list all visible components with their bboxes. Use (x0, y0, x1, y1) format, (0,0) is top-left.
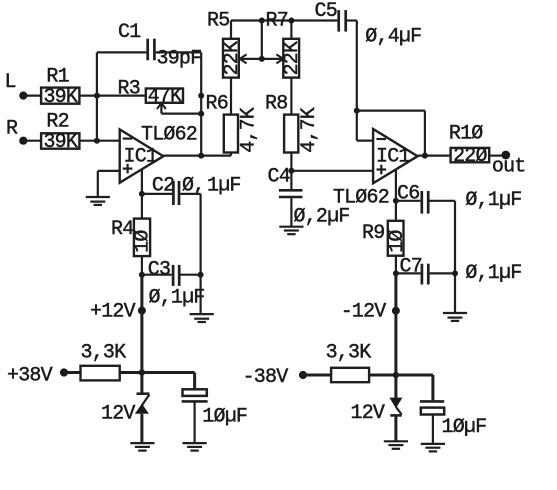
wire R9 bottom (395, 256, 397, 274)
svg-text:1ØµF: 1ØµF (442, 416, 487, 439)
junction dot R1/R3 node (94, 93, 100, 99)
svg-text:C5: C5 (315, 0, 337, 23)
junction dot C4 node (288, 168, 294, 174)
resistor R10 (451, 145, 490, 168)
capacitor C2 (173, 181, 179, 205)
wire 3,3K to rail (120, 371, 142, 374)
op-amp IC1 right minus sign (376, 138, 386, 140)
svg-text:+38V: +38V (7, 365, 53, 388)
resistor R4 (132, 219, 155, 257)
wire 3,3K right to rail (369, 374, 396, 377)
wire IC1 right minus input (357, 140, 373, 142)
R7 wiper arrowhead (276, 54, 283, 63)
wire C2/C3 ground vertical (200, 194, 202, 275)
svg-text:R9: R9 (362, 222, 384, 245)
wire R1 to R3 (79, 94, 145, 96)
svg-text:R8: R8 (265, 93, 287, 116)
wire op-amp output row (163, 155, 231, 157)
svg-text:Ø,1µF: Ø,1µF (149, 286, 205, 309)
svg-text:4,7K: 4,7K (298, 107, 321, 153)
capacitor C4 (279, 171, 303, 227)
svg-text:L: L (5, 71, 16, 94)
svg-text:22K: 22K (281, 41, 304, 75)
junction dot C7 node (393, 270, 399, 276)
svg-text:R: R (6, 118, 18, 141)
ground C6C7 (443, 313, 467, 321)
capacitor C1 (148, 39, 155, 61)
wire C3 left (142, 274, 172, 276)
resistor R1 (41, 86, 79, 109)
junction dot +38V node (139, 369, 145, 375)
wire C5 right (347, 19, 357, 21)
trimmer R7 (281, 39, 304, 78)
wire feedback horizontal right (357, 109, 425, 111)
wire op-amp V- pin down (141, 170, 143, 220)
zener diode left 12V (135, 394, 150, 443)
node out terminal dot (501, 151, 510, 160)
svg-text:R3: R3 (118, 78, 140, 101)
wire to filter cap right (396, 374, 433, 377)
node +38V terminal dot (60, 368, 68, 376)
ground under left 10uF (183, 443, 207, 451)
wire wiper row (240, 58, 284, 60)
trimmer R5 (221, 39, 244, 78)
op-amp IC1 left plus sign (123, 164, 133, 174)
svg-text:R4: R4 (111, 218, 133, 241)
wire R4 bottom (141, 256, 143, 275)
wire -38V to resistor (303, 374, 331, 377)
resistor R9 (386, 221, 409, 256)
capacitor 10uF right (420, 375, 444, 444)
svg-text:22Ø: 22Ø (453, 145, 487, 168)
svg-text:TLØ62: TLØ62 (141, 124, 197, 147)
junction dot C2 node (139, 191, 145, 197)
wire +12V rail (140, 275, 143, 393)
resistor 3,3K right (331, 368, 369, 382)
wire C1 right (156, 51, 202, 53)
wire C6C7 ground vertical (454, 201, 456, 313)
junction dot wiper (198, 111, 204, 117)
wire +38V to resistor (64, 371, 81, 374)
op-amp U1B IC1 right (373, 129, 418, 183)
wire R8 bottom to C4 (290, 153, 292, 171)
wire IC1 right V- pin down (395, 170, 397, 221)
wire R3 wiper to feedback (161, 112, 201, 114)
wire C6 left (396, 200, 421, 202)
svg-text:4,7K: 4,7K (238, 107, 261, 153)
wire R10 to out (489, 155, 501, 157)
ground under left zener (130, 443, 154, 451)
op-amp IC1 left minus sign (123, 138, 133, 140)
junction dot wiper row (259, 56, 265, 62)
svg-text:C4: C4 (268, 166, 290, 189)
resistor R2 (41, 131, 79, 154)
svg-text:1ØµF: 1ØµF (202, 406, 247, 429)
junction dot R3 right (198, 93, 204, 99)
wire summing node vertical (96, 52, 98, 140)
wire R7 top leg (290, 21, 292, 39)
junction dot C3 node (139, 272, 145, 278)
svg-text:39K: 39K (43, 86, 77, 109)
svg-text:3,3K: 3,3K (81, 342, 127, 365)
capacitor C3 (173, 265, 179, 286)
capacitor C2 value (182, 175, 241, 198)
junction dot wiper feed top (259, 18, 265, 24)
wire op-amp plus input (98, 170, 120, 172)
ground C2C3 (190, 314, 214, 322)
ground under right 10uF (421, 444, 445, 452)
wire top feedback row (231, 19, 337, 21)
wire C7 left (396, 272, 421, 274)
wire R6 bottom (230, 153, 232, 156)
svg-text:+12V: +12V (90, 301, 136, 324)
zener diode right 12V (389, 398, 402, 442)
resistor R6 (224, 107, 261, 153)
capacitor C5 (339, 10, 346, 32)
svg-text:R7: R7 (266, 10, 288, 33)
svg-text:Ø,1µF: Ø,1µF (465, 262, 521, 285)
junction dot output/feedback (198, 153, 204, 159)
wire C3 right (181, 274, 201, 276)
op-amp U1A IC1 (120, 129, 164, 182)
svg-text:R6: R6 (206, 93, 228, 116)
wire R7 bottom to R8 (290, 78, 292, 115)
capacitor C7 (422, 264, 428, 285)
svg-text:-12V: -12V (341, 301, 387, 324)
junction dot R2 node (94, 138, 100, 144)
svg-text:1Ø: 1Ø (132, 230, 155, 253)
wire feedback down to output (424, 111, 426, 156)
junction dot -12V (392, 307, 400, 315)
node -38V terminal dot (299, 371, 307, 379)
svg-text:TLØ62: TLØ62 (333, 187, 389, 210)
wire C2 right (180, 193, 200, 195)
svg-text:12V: 12V (351, 402, 385, 425)
wire R input to R2 (23, 140, 41, 142)
ground under C4 (279, 227, 303, 235)
wire to ground C2C3 (200, 275, 202, 314)
wire R5 top leg (230, 21, 232, 39)
svg-text:C3: C3 (148, 258, 170, 281)
capacitor 10uF left (182, 373, 208, 444)
resistor R8 (284, 107, 321, 153)
resistor 3,3K left (81, 366, 120, 381)
svg-text:1Ø: 1Ø (386, 230, 409, 253)
wire R5 bottom to R6 (230, 78, 232, 115)
svg-text:3,3K: 3,3K (326, 342, 372, 365)
node R terminal dot (19, 137, 27, 145)
svg-text:R1Ø: R1Ø (449, 123, 483, 146)
wire IC1 right output (418, 155, 451, 157)
wire feedback vertical (200, 52, 202, 155)
op-amp IC1 right plus sign (377, 165, 387, 175)
trimmer R3 (146, 86, 183, 109)
junction dot +12V (138, 307, 146, 315)
svg-text:out: out (492, 156, 526, 179)
node L terminal dot (19, 92, 27, 100)
wire C6 right (430, 200, 456, 202)
svg-text:39K: 39K (43, 131, 77, 154)
svg-text:-38V: -38V (243, 366, 289, 389)
junction dot feedback right (354, 108, 360, 114)
trimmer R3 wiper arrow (157, 103, 166, 114)
wire wiper feed vertical (261, 21, 263, 59)
wire to filter cap left (142, 371, 195, 374)
wire C1 left (97, 51, 146, 53)
junction dot output right (422, 153, 428, 159)
wire C7 right (430, 272, 455, 274)
junction dot R7 top (288, 18, 294, 24)
svg-text:C7: C7 (400, 255, 422, 278)
wire -12V rail (394, 273, 397, 398)
svg-text:Ø,1µF: Ø,1µF (465, 189, 521, 212)
junction dot C6 node (393, 198, 399, 204)
svg-text:C6: C6 (397, 183, 419, 206)
junction dot C3 ground line (198, 272, 204, 278)
svg-text:47K: 47K (148, 86, 182, 109)
svg-text:C1: C1 (118, 21, 141, 44)
wire C5 down to minus input (356, 21, 358, 141)
svg-text:12V: 12V (101, 403, 135, 426)
ground at IC1 left plus input (86, 171, 110, 205)
svg-text:R5: R5 (207, 10, 229, 33)
wire C2 left (142, 193, 172, 195)
wire C4 node to IC1 right plus input (291, 170, 373, 172)
junction dot -38V node (393, 372, 399, 378)
junction dot C7 ground line (452, 270, 458, 276)
wire R2 to op-amp inverting input (79, 140, 119, 142)
ground under right zener (384, 441, 408, 449)
svg-text:1µF: 1µF (207, 175, 241, 198)
svg-text:39pF: 39pF (157, 47, 202, 70)
R5 wiper arrowhead (240, 54, 247, 63)
wire L input to R1 (23, 94, 41, 96)
svg-text:Ø,4µF: Ø,4µF (365, 26, 421, 49)
capacitor C6 (422, 191, 428, 214)
